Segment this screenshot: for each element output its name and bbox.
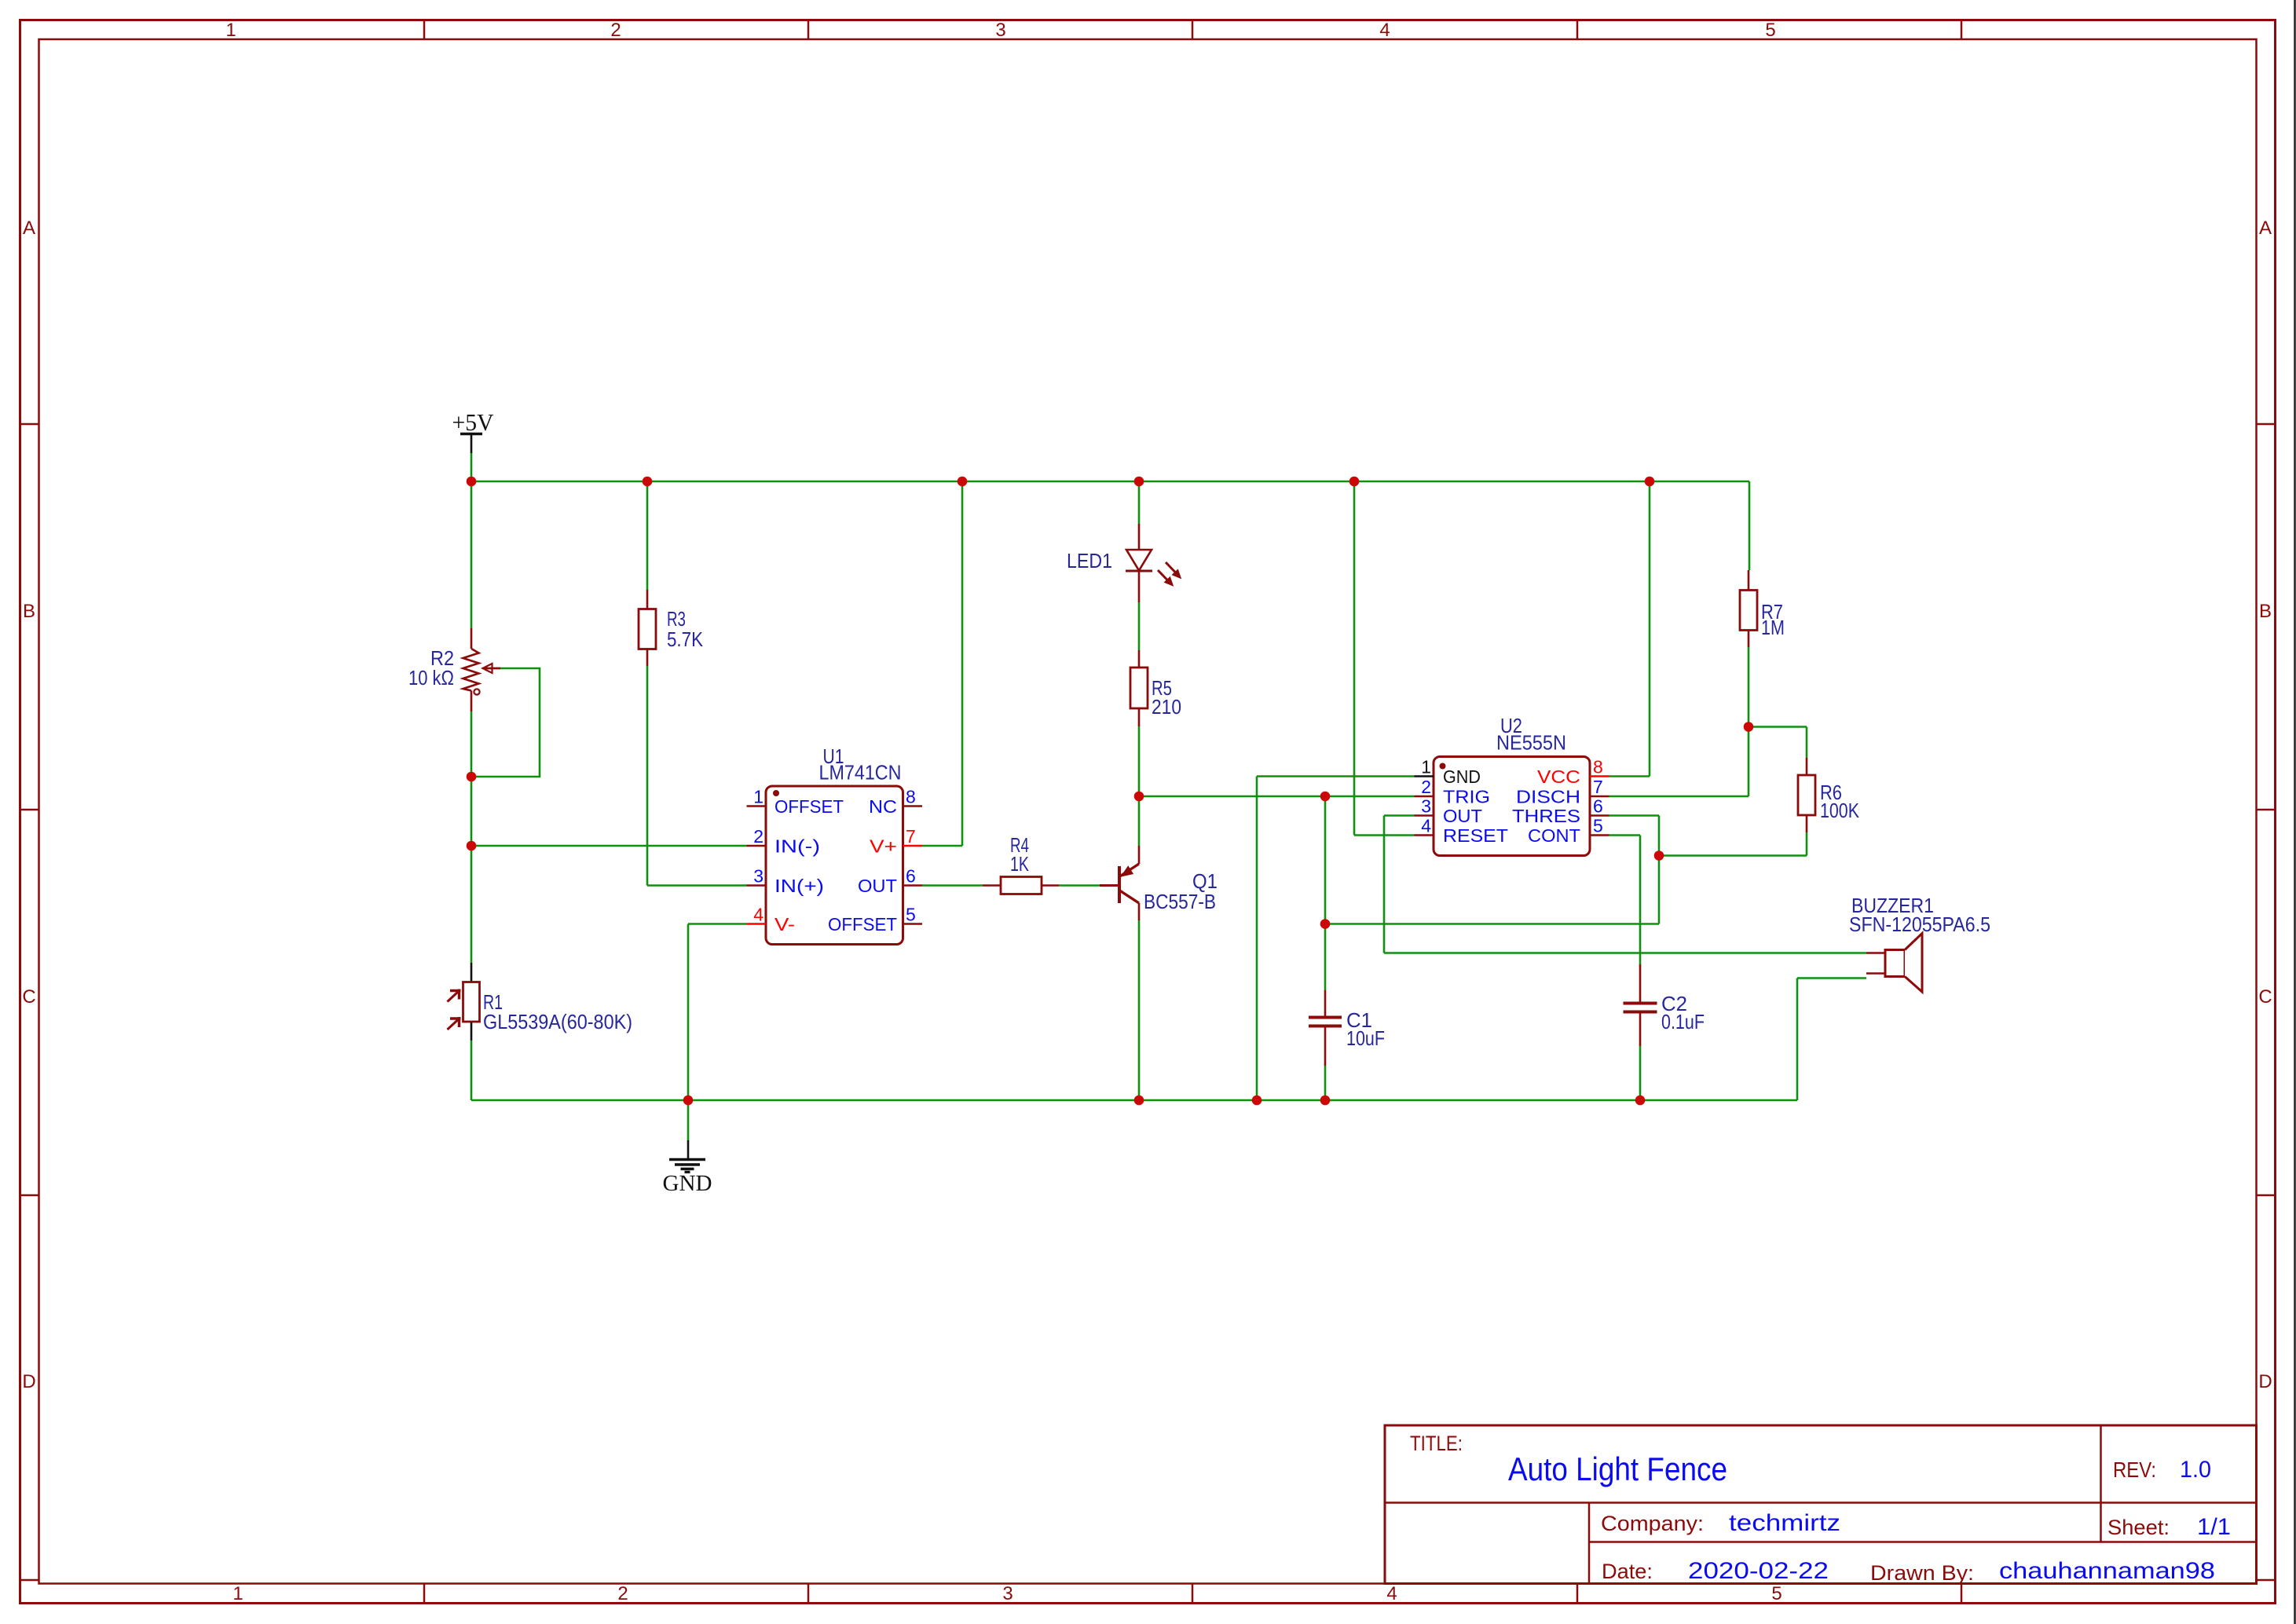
svg-text:7: 7 — [906, 826, 916, 847]
wire bus to R2 — [471, 481, 473, 628]
wire ground rail — [471, 1099, 1797, 1102]
R1 designator — [483, 990, 503, 1014]
R4 designator — [1010, 833, 1029, 857]
R2 designator — [430, 646, 454, 670]
resistor R2 (potentiometer) — [463, 628, 501, 711]
svg-text:10uF: 10uF — [1346, 1026, 1385, 1050]
U1 pin 2 IN(-) — [747, 826, 821, 857]
svg-text:6: 6 — [1593, 796, 1603, 817]
svg-text:IN(+): IN(+) — [774, 876, 824, 896]
svg-text:1/1: 1/1 — [2197, 1514, 2231, 1540]
wire U2 VCC to bus — [1609, 481, 1650, 777]
C2 designator — [1661, 992, 1687, 1015]
title block — [1385, 1425, 2257, 1585]
R7 value 1M — [1761, 616, 1785, 639]
svg-text:techmirtz: techmirtz — [1729, 1510, 1840, 1536]
wire U1 OUT to R4 — [922, 884, 983, 887]
U1 value LM741CN — [819, 761, 902, 785]
resistor R1 (photoresistor GL5539A) — [448, 963, 480, 1041]
svg-text:V-: V- — [774, 914, 795, 935]
ground GND — [663, 1160, 712, 1197]
svg-text:BC557-B: BC557-B — [1144, 890, 1216, 913]
svg-text:3: 3 — [1421, 796, 1431, 817]
wire GND stub — [687, 1100, 690, 1160]
node emitter/TRIG — [1134, 792, 1144, 802]
svg-text:GL5539A(60-80K): GL5539A(60-80K) — [483, 1010, 632, 1033]
svg-text:1: 1 — [233, 1583, 243, 1604]
wire R7 to node — [1748, 647, 1750, 727]
svg-text:5: 5 — [1771, 1583, 1782, 1604]
wire U1 V+ to bus — [922, 481, 962, 846]
svg-text:5.7K: 5.7K — [667, 627, 704, 651]
node +5V/bus junction — [467, 477, 477, 487]
svg-text:2: 2 — [610, 20, 621, 41]
wire +5V bus — [471, 481, 1749, 483]
op-amp U1 body — [766, 786, 903, 945]
wire emitter node to Q1 — [1138, 796, 1141, 846]
R5 designator — [1152, 676, 1172, 700]
wire bus to LED1 — [1138, 481, 1141, 524]
power +5V — [452, 408, 495, 436]
wire bus to U2 RESET — [1354, 481, 1415, 836]
resistor R7 — [1740, 570, 1757, 647]
wire emitter node to U2 TRIG — [1139, 796, 1415, 798]
wire R5 to emitter node — [1138, 726, 1141, 796]
svg-text:Sheet:: Sheet: — [2107, 1516, 2170, 1539]
svg-text:OUT: OUT — [1443, 806, 1482, 826]
C1 designator — [1346, 1008, 1372, 1032]
node R7/DISCH/R6 — [1744, 722, 1754, 732]
node rail/Q1 — [1134, 1095, 1144, 1106]
svg-text:OFFSET: OFFSET — [774, 796, 844, 817]
svg-text:LM741CN: LM741CN — [819, 761, 902, 785]
svg-text:1.0: 1.0 — [2180, 1457, 2211, 1483]
R1 value GL5539A(60-80K) — [483, 1010, 632, 1033]
wire U2 DISCH to R7 node — [1609, 727, 1749, 797]
node rail/U2GND — [1252, 1095, 1262, 1106]
wire node to R1 — [471, 846, 473, 963]
svg-text:GND: GND — [1443, 766, 1481, 787]
Q1 value BC557-B — [1144, 890, 1216, 913]
svg-text:Company:: Company: — [1601, 1512, 1704, 1535]
svg-text:REV:: REV: — [2113, 1458, 2156, 1482]
wire R2 wiper loop — [471, 668, 540, 777]
svg-text:8: 8 — [1593, 757, 1603, 777]
svg-text:+5V: +5V — [452, 408, 495, 436]
node bus/LED — [1134, 477, 1144, 487]
wire R6 to THRES node — [1659, 832, 1807, 856]
wire node to R6 — [1749, 727, 1807, 759]
svg-text:TITLE:: TITLE: — [1410, 1432, 1463, 1455]
node rail/GND — [683, 1095, 694, 1106]
resistor R4 — [983, 877, 1059, 894]
BUZZER1 designator — [1851, 894, 1934, 917]
svg-text:5: 5 — [906, 905, 916, 925]
svg-text:4: 4 — [753, 905, 764, 925]
capacitor C2 — [1624, 964, 1657, 1046]
U1 pin 1 OFFSET — [747, 787, 844, 817]
BUZZER1 value SFN-12055PA6.5 — [1849, 913, 1990, 936]
node TRIG/C1 branch — [1320, 792, 1331, 802]
R2 value 10 kΩ — [408, 666, 454, 689]
U1 pin 6 OUT — [858, 866, 922, 897]
svg-text:CONT: CONT — [1528, 825, 1580, 846]
svg-text:8: 8 — [906, 787, 916, 807]
wire bus corner to R7 — [1749, 481, 1751, 570]
U1 pin 7 V+ — [870, 826, 922, 857]
R4 value 1K — [1010, 852, 1029, 876]
wire U2 THRES to C1 node — [1325, 816, 1659, 924]
wire bus to R3 — [646, 481, 649, 590]
svg-text:6: 6 — [906, 866, 916, 887]
wire IN- to U1 pin2 — [471, 845, 747, 847]
svg-text:Date:: Date: — [1602, 1560, 1653, 1583]
U2 value NE555N — [1496, 731, 1566, 755]
svg-text:2: 2 — [1421, 777, 1431, 797]
node wiper loop — [467, 772, 477, 782]
node bus/R3 — [643, 477, 653, 487]
svg-text:VCC: VCC — [1537, 766, 1580, 787]
svg-text:TRIG: TRIG — [1443, 787, 1490, 807]
wire U1 V- to ground — [688, 924, 747, 1101]
wire node to IN- node — [471, 777, 473, 846]
svg-text:5: 5 — [1593, 816, 1603, 836]
svg-text:OFFSET: OFFSET — [828, 914, 897, 935]
resistor R5 — [1130, 650, 1148, 726]
wire U2 OUT to buzzer — [1384, 816, 1866, 953]
svg-text:1: 1 — [1421, 757, 1431, 777]
buzzer BUZZER1 (SFN-12055PA6.5) — [1866, 934, 1922, 993]
U1 pin 5 OFFSET — [828, 905, 922, 935]
wire U2 CONT to C2 — [1609, 836, 1641, 965]
node R6/THRES — [1654, 850, 1664, 861]
timer U2 body — [1434, 757, 1590, 856]
U2 pin 3 OUT — [1415, 796, 1483, 827]
svg-text:7: 7 — [1593, 777, 1603, 797]
svg-text:0.1uF: 0.1uF — [1661, 1010, 1705, 1033]
node bus/RESET — [1349, 477, 1360, 487]
svg-text:210: 210 — [1152, 695, 1181, 719]
R5 value 210 — [1152, 695, 1181, 719]
node IN- — [467, 841, 477, 851]
resistor R3 — [639, 590, 656, 666]
U2 pin 5 CONT — [1528, 816, 1609, 847]
svg-text:D: D — [22, 1371, 35, 1392]
U1 pin 8 NC — [869, 787, 922, 817]
svg-text:4: 4 — [1379, 20, 1390, 41]
svg-text:Auto Light Fence: Auto Light Fence — [1508, 1450, 1727, 1487]
svg-text:B: B — [23, 601, 35, 622]
svg-text:2: 2 — [753, 826, 764, 847]
wire +5V stem — [471, 435, 473, 482]
U2 pin 2 TRIG — [1415, 777, 1491, 807]
wire R4 to Q1 base — [1059, 884, 1100, 887]
svg-text:3: 3 — [995, 20, 1005, 41]
resistor R6 — [1798, 758, 1815, 832]
node bus/V+ — [958, 477, 968, 487]
C2 value 0.1uF — [1661, 1010, 1705, 1033]
svg-text:1: 1 — [225, 20, 236, 41]
wire Q1 collector to rail — [1138, 920, 1141, 1100]
svg-text:1M: 1M — [1761, 616, 1785, 639]
svg-text:5: 5 — [1765, 20, 1775, 41]
U2 pin 6 THRES — [1512, 796, 1609, 827]
svg-text:Drawn By:: Drawn By: — [1870, 1561, 1974, 1585]
U1 pin 4 V- — [747, 905, 796, 935]
R6 value 100K — [1820, 799, 1860, 822]
svg-text:LED1: LED1 — [1067, 549, 1112, 572]
svg-text:OUT: OUT — [858, 876, 897, 896]
node bus/VCC — [1645, 477, 1655, 487]
LED1 designator — [1067, 549, 1112, 572]
U1 designator — [823, 744, 844, 768]
node THRES/C1 — [1320, 919, 1331, 929]
svg-text:2: 2 — [617, 1583, 628, 1604]
wire R1 to ground rail — [471, 1041, 473, 1100]
svg-text:NE555N: NE555N — [1496, 731, 1566, 755]
wire C2 to rail — [1639, 1046, 1642, 1100]
capacitor C1 — [1309, 990, 1342, 1066]
node rail/C1 — [1320, 1095, 1331, 1106]
svg-text:1: 1 — [753, 787, 764, 807]
U2 pin 1 GND — [1415, 757, 1481, 788]
transistor Q1 (BC557-B) — [1100, 846, 1139, 920]
svg-text:SFN-12055PA6.5: SFN-12055PA6.5 — [1849, 913, 1990, 936]
wire R2 to wiper node — [471, 711, 473, 777]
wire TRIG node to C1 — [1324, 796, 1327, 990]
wire R3 to U1 pin3 — [647, 666, 747, 886]
svg-text:A: A — [23, 218, 35, 239]
svg-text:3: 3 — [1002, 1583, 1013, 1604]
svg-text:THRES: THRES — [1512, 806, 1580, 826]
svg-text:B: B — [2259, 601, 2272, 622]
svg-text:V+: V+ — [870, 836, 897, 857]
svg-text:GND: GND — [663, 1172, 712, 1196]
U2 pin 7 DISCH — [1516, 777, 1609, 807]
svg-text:C: C — [22, 986, 35, 1008]
diode LED1 — [1126, 524, 1181, 602]
R7 designator — [1761, 600, 1783, 624]
svg-text:1K: 1K — [1010, 852, 1029, 876]
Q1 designator — [1192, 869, 1218, 893]
wire C1 to rail — [1324, 1066, 1327, 1100]
svg-text:100K: 100K — [1820, 799, 1860, 822]
U2 designator — [1500, 714, 1522, 737]
svg-text:4: 4 — [1386, 1583, 1397, 1604]
svg-text:C: C — [2258, 986, 2272, 1008]
R3 value 5.7K — [667, 627, 704, 651]
wire U2 GND pin to rail — [1257, 777, 1415, 1101]
wire LED1 to R5 — [1138, 602, 1141, 650]
svg-text:IN(-): IN(-) — [774, 836, 820, 857]
svg-text:3: 3 — [753, 866, 764, 887]
svg-text:2020-02-22: 2020-02-22 — [1688, 1558, 1829, 1584]
wire buzzer return to rail — [1797, 978, 1866, 1101]
svg-text:D: D — [2258, 1371, 2272, 1392]
node rail/C2 — [1635, 1095, 1646, 1106]
R6 designator — [1820, 781, 1842, 804]
U1 pin 3 IN(+) — [747, 866, 825, 897]
U2 pin 8 VCC — [1537, 757, 1609, 788]
svg-text:10 kΩ: 10 kΩ — [408, 666, 454, 689]
svg-text:A: A — [2259, 218, 2272, 239]
C1 value 10uF — [1346, 1026, 1385, 1050]
U2 pin 4 RESET — [1415, 816, 1509, 847]
R3 designator — [667, 607, 686, 631]
svg-text:NC: NC — [869, 796, 897, 817]
svg-text:RESET: RESET — [1443, 825, 1508, 846]
svg-text:chauhannaman98: chauhannaman98 — [1999, 1558, 2215, 1584]
svg-text:DISCH: DISCH — [1516, 787, 1580, 807]
svg-text:4: 4 — [1421, 816, 1431, 836]
